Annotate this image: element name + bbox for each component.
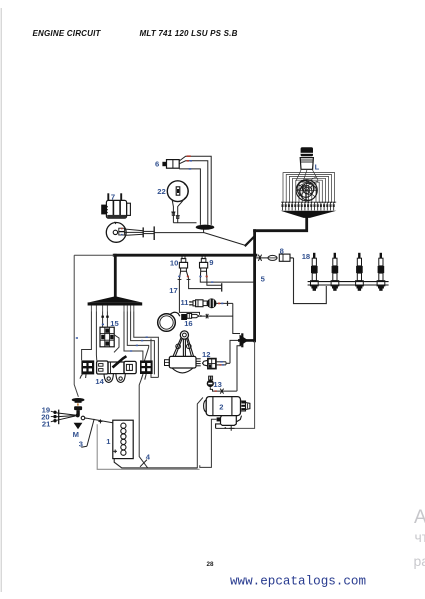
relay block 15 [100, 327, 114, 347]
sensor 10 [178, 256, 191, 280]
battery 1 [98, 419, 133, 458]
glow plug rail 18 [308, 282, 389, 285]
svg-text:28: 28 [207, 561, 215, 568]
wire glow rail to fuse 8 [294, 258, 327, 304]
sensor 12 [203, 359, 216, 369]
glow plug 18d [377, 253, 385, 291]
wire solenoid bottom [216, 426, 235, 431]
wires from 6 [179, 156, 211, 225]
harness L wire fan [283, 170, 335, 203]
umbrella wire stubs [91, 306, 133, 312]
wire diagonal motor to bus [204, 233, 246, 246]
glow plug 18b [331, 253, 339, 291]
harness L converge triangle [281, 211, 337, 218]
svg-text:M: M [73, 430, 79, 439]
switch 6 [162, 160, 179, 169]
wire color dashes near 6 [187, 156, 192, 169]
wire 3 branch [81, 419, 94, 447]
junction x on wire 8 [255, 255, 268, 261]
svg-text:MLT 741 120 LSU PS S.B: MLT 741 120 LSU PS S.B [140, 29, 238, 38]
svg-text:чт: чт [415, 529, 425, 545]
motor loom wires [125, 226, 204, 240]
harness connector L [300, 147, 313, 169]
terminal ring right of M [81, 416, 87, 420]
arrow M down [74, 423, 83, 429]
svg-text:ра: ра [414, 553, 425, 569]
relay 14a [80, 360, 94, 378]
cluster wires right of umbrella [124, 312, 158, 378]
svg-text:9: 9 [209, 258, 213, 267]
sensor 9 [200, 256, 208, 279]
wire thick bus horizontal y255 [114, 254, 256, 257]
svg-text:12: 12 [202, 350, 210, 359]
svg-text:3: 3 [79, 440, 83, 449]
connector chain 16 [181, 314, 233, 321]
starter solenoid [216, 416, 242, 429]
wire 12 to junction [216, 340, 240, 365]
svg-text:21: 21 [42, 420, 51, 429]
svg-text:ENGINE CIRCUIT: ENGINE CIRCUIT [33, 29, 102, 38]
svg-text:10: 10 [170, 259, 178, 268]
starter motor 2 [204, 397, 250, 416]
connector oval on wire 8 [268, 255, 277, 260]
alternator 7 [101, 193, 130, 218]
svg-text:11: 11 [181, 298, 190, 307]
wire from 15 right side [114, 335, 119, 353]
harness L wire knot [296, 180, 317, 201]
svg-text:6: 6 [155, 159, 159, 168]
wire thin top-left [74, 255, 114, 397]
wire 11 to junction [217, 301, 241, 334]
svg-text:4: 4 [146, 452, 151, 461]
junction arrow node [238, 333, 255, 347]
svg-text:www.epcatalogs.com: www.epcatalogs.com [230, 575, 366, 589]
wire color dashes near sensors [178, 276, 213, 282]
cluster wires left of 15 [82, 312, 108, 361]
battery box open frame [97, 424, 199, 469]
motor circle under 7 [106, 222, 126, 243]
svg-text:14: 14 [95, 377, 104, 386]
wire thick bus vertical x254.6 [253, 231, 256, 341]
clamp ring 16 [158, 312, 180, 331]
terminals 19 20 21 [51, 410, 76, 425]
wire thick diagonal joint to bus [246, 237, 255, 246]
connector foot under 6 wires [196, 225, 215, 233]
scan edge line [0, 8, 2, 592]
svg-text:L: L [315, 163, 320, 172]
glow plug 18c [356, 253, 364, 291]
wire junction down to 13 node [237, 346, 243, 391]
wire color dots in cluster [76, 324, 148, 351]
svg-text:22: 22 [157, 187, 165, 196]
glow plug 18a [311, 253, 319, 291]
relay 14c [140, 360, 153, 379]
svg-text:1: 1 [106, 437, 111, 446]
wire thick umbrella stem [114, 255, 117, 298]
connector dots above 15 [101, 316, 108, 318]
wire M to battery top [88, 418, 113, 422]
solenoid assembly 14b [97, 356, 137, 382]
WIRES-THICK [114, 217, 307, 341]
svg-text:13: 13 [213, 380, 221, 389]
wire solenoid terminal down [200, 419, 217, 467]
ground stud M [72, 398, 85, 417]
svg-text:15: 15 [110, 319, 119, 328]
wire thick from harness L [255, 217, 307, 231]
svg-text:А: А [414, 507, 425, 528]
svg-text:16: 16 [184, 319, 192, 328]
svg-text:18: 18 [302, 252, 310, 261]
sender 11 [190, 298, 217, 308]
wires 17 from sensors [179, 279, 254, 315]
svg-text:8: 8 [280, 246, 284, 255]
fuse 8 [279, 254, 293, 261]
motor connector block [119, 228, 125, 235]
wire 4 break mark [140, 460, 147, 467]
sensor 13 [207, 376, 237, 394]
wire starter cap down to battery wire [197, 398, 203, 469]
wire junction down to solenoid [234, 341, 255, 429]
svg-text:7: 7 [111, 193, 115, 202]
svg-text:17: 17 [169, 286, 177, 295]
wires legs of 22 [171, 201, 196, 223]
svg-text:2: 2 [219, 403, 223, 412]
umbrella harness head [88, 296, 143, 305]
engine bracket [165, 331, 201, 373]
gauge 22 [167, 181, 188, 202]
wire battery plus to starter [114, 459, 197, 468]
wire 14 down to 4 [139, 380, 147, 468]
svg-text:5: 5 [261, 275, 266, 284]
harness L terminal comb [281, 202, 336, 210]
